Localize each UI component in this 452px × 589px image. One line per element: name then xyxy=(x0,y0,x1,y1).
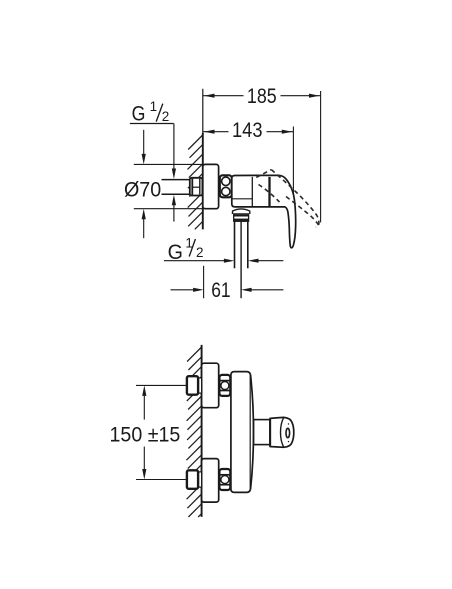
G1/2 leader arrows to supply pipe xyxy=(173,124,175,169)
escutcheon bottom (bottom figure) xyxy=(202,459,219,503)
dimension 185 xyxy=(203,91,321,222)
dimension diameter 70 (escutcheon) xyxy=(134,130,203,238)
escutcheon top (bottom figure) xyxy=(202,363,219,408)
lever end ellipse xyxy=(286,428,290,437)
svg-text:150 ±15: 150 ±15 xyxy=(110,423,181,446)
dimension 143 xyxy=(203,127,294,197)
cap detail dots xyxy=(288,423,289,424)
shower outlet collar xyxy=(232,209,250,214)
supply pipe (top figure) xyxy=(162,179,191,181)
svg-text:61: 61 xyxy=(211,279,230,302)
wall hatching (top figure) xyxy=(188,135,203,229)
svg-text:Ø70: Ø70 xyxy=(124,179,161,202)
handle dome edge arc xyxy=(281,418,284,448)
dimension 61 xyxy=(203,266,205,299)
svg-text:185: 185 xyxy=(247,85,277,108)
S-union nut bottom (bottom figure) xyxy=(198,472,202,487)
union nut top (bottom figure) xyxy=(219,375,230,396)
mixer body (bottom figure) xyxy=(231,372,254,493)
dimension 150 plus/minus 15 xyxy=(136,385,187,479)
svg-text:1: 1 xyxy=(150,99,158,114)
union nut bottom (bottom figure) xyxy=(219,469,230,490)
wall face line (bottom figure) xyxy=(201,345,203,517)
svg-text:G: G xyxy=(132,103,146,126)
dashed lever swing outline xyxy=(256,170,319,228)
cartridge ring lines xyxy=(251,177,253,206)
S-union nut top (bottom figure) xyxy=(198,378,202,393)
wall hatching (bottom figure) xyxy=(186,347,201,517)
wall face line / left extension line (top figure) xyxy=(202,89,204,134)
handle end cap (bottom figure) xyxy=(270,417,294,447)
body waterway line xyxy=(231,198,252,200)
union nut (top figure) xyxy=(220,175,232,197)
outlet pipe (to shower hose) xyxy=(234,221,236,268)
mixer body + lever handle outline (top figure) xyxy=(232,175,296,248)
S-union nut in wall (top figure) xyxy=(190,178,203,196)
escutcheon (top figure) xyxy=(203,164,219,208)
handle neck (bottom figure) xyxy=(254,420,270,445)
svg-text:2: 2 xyxy=(196,245,204,260)
handle divider line xyxy=(269,418,271,446)
svg-text:2: 2 xyxy=(162,109,170,124)
grooved outlet nut xyxy=(234,214,249,221)
svg-text:143: 143 xyxy=(232,119,263,142)
